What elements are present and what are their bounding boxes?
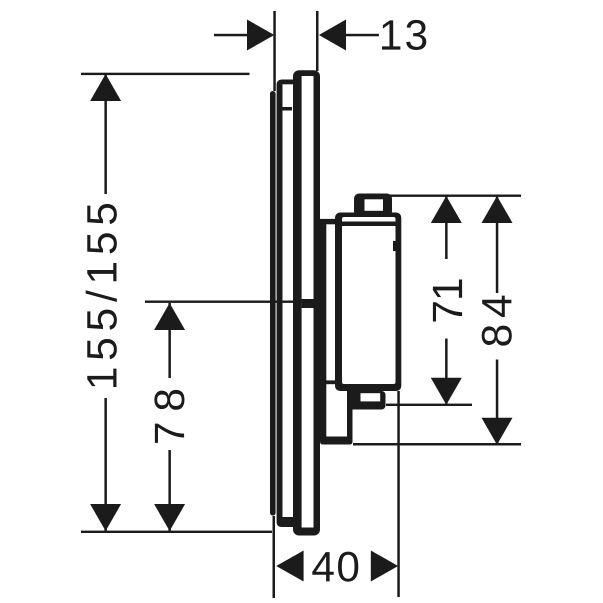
bottom cap: [349, 391, 386, 410]
bracket top tab: [320, 219, 335, 224]
escutcheon mid seam bar: [302, 299, 314, 308]
handle bracket column: [320, 219, 326, 438]
top right extension line (71/84): [390, 195, 521, 197]
dim 13 left arrowhead: [247, 20, 274, 51]
lower stem pipe bottom: [320, 437, 353, 445]
extension line 40 left: [273, 516, 276, 598]
handle body right notch: [393, 241, 396, 251]
inner plate window tick: [283, 107, 293, 111]
label 13: [382, 20, 426, 50]
dim 84 down arrowhead: [482, 418, 513, 445]
dim 155/155 down arrowhead: [90, 504, 121, 531]
lower stem pipe right wall: [347, 391, 353, 437]
dim 13 right tail: [346, 34, 379, 37]
dim 155/155 line lower: [104, 398, 107, 531]
escutcheon plate (side view): [293, 70, 320, 535]
label 155/155: [86, 204, 117, 387]
dim 40 right arrowhead: [371, 551, 398, 582]
dim 84 up arrowhead: [482, 196, 513, 223]
dim 40 left arrowhead: [276, 551, 303, 582]
extension line 13 right: [316, 11, 319, 71]
dim 84 line lower: [496, 360, 499, 445]
dim 155/155 line upper: [104, 74, 107, 194]
label 40: [312, 552, 358, 582]
dim 155/155 up arrowhead: [90, 74, 121, 101]
dim 71 line lower: [445, 339, 448, 404]
label 71: [433, 279, 462, 321]
dim 13 left tail: [214, 34, 249, 37]
handle body: [335, 213, 401, 392]
label 78: [154, 390, 184, 443]
dim 13 right arrowhead: [319, 20, 346, 51]
bottom extension line (155): [81, 531, 272, 533]
dim 84 line upper: [496, 196, 499, 293]
bracket bottom tab: [320, 380, 335, 384]
dim 78 line lower: [168, 450, 171, 531]
mid right extension line (71 bottom): [386, 404, 472, 406]
extension line 40 right: [397, 391, 400, 597]
dim 78 down arrowhead: [154, 504, 185, 531]
handle body inner top rim line: [342, 222, 396, 227]
inner carrier plate outline: [277, 80, 294, 528]
bottom right extension line (84): [353, 443, 521, 446]
label 84: [482, 296, 512, 346]
dim 71 up arrowhead: [431, 196, 462, 223]
extension line 13 left: [273, 11, 276, 91]
top cap (cartridge stem): [354, 194, 392, 217]
dim 78 up arrowhead: [154, 303, 185, 330]
mid extension line (155/155 split): [145, 301, 314, 303]
dim 78 line upper: [168, 303, 171, 378]
wall sleeve bar (back plate): [270, 91, 276, 516]
dim 71 down arrowhead: [431, 378, 462, 405]
top extension line (155): [81, 73, 250, 75]
dim 71 line upper: [445, 196, 448, 259]
